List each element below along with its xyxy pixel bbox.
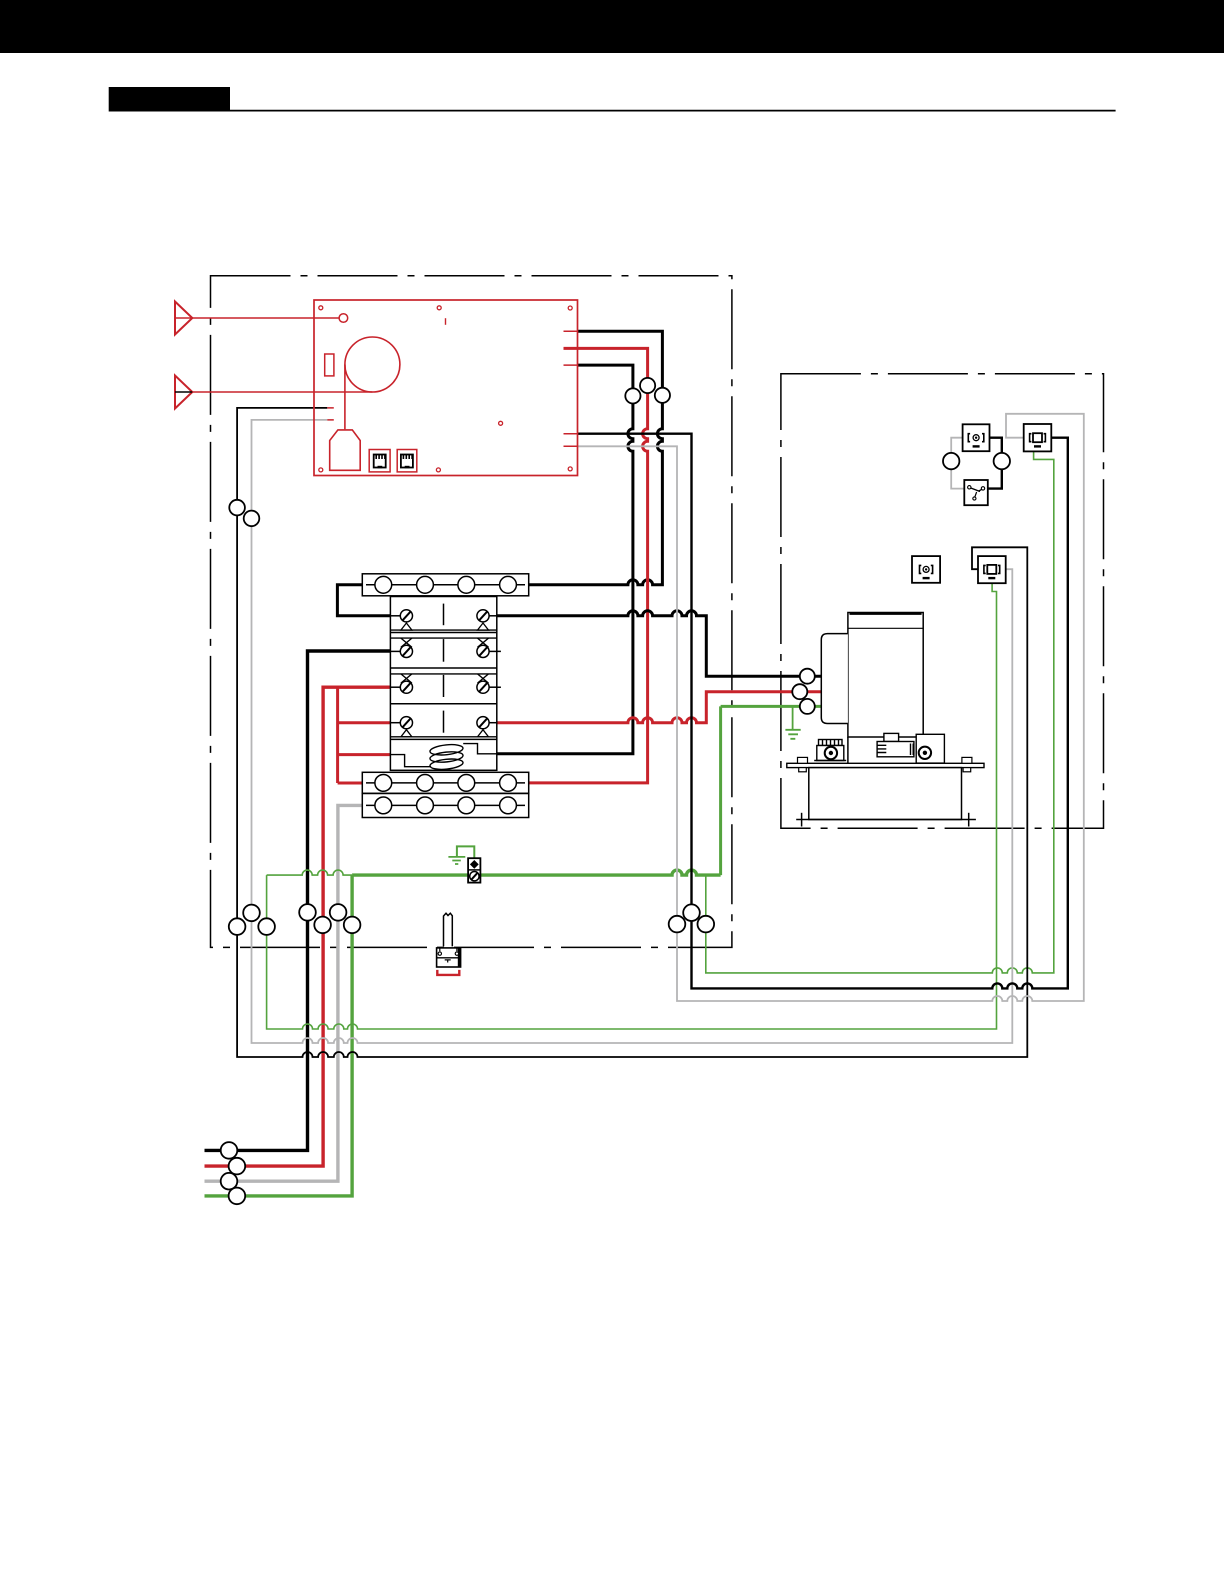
interlock switch box	[964, 480, 988, 505]
wire: green ground bus thin left tail	[267, 870, 353, 875]
wire: device A right black to interlock switch	[988, 438, 1002, 489]
wire: contactor row2 left to bottom-left cable black	[205, 651, 391, 1150]
wire: green ground main - motor terminal 3 stub	[721, 705, 822, 708]
junction circles near control board right	[625, 378, 670, 404]
wire: board pin4 black to device B right	[578, 434, 1068, 989]
wire: contactor row1 right black to motor terminal 1	[497, 611, 822, 676]
contactor K1 row3 contacts	[390, 674, 496, 697]
contactor K1 body	[390, 597, 496, 771]
control board antenna terminal circle	[339, 314, 348, 323]
contactor K1 row4 contacts	[390, 711, 496, 737]
wire: board left gray to solenoid valve D right	[252, 420, 1013, 1043]
junction circles near control board left	[229, 500, 259, 526]
hydraulic power unit: reservoir tank	[809, 768, 962, 820]
input arrow 1	[175, 302, 339, 335]
top terminal strip TB1	[362, 574, 528, 596]
wire: board pin3 black to contactor coil right	[497, 365, 633, 754]
wire: contactor right edge stubs rows 2-3	[497, 651, 501, 687]
wire: red branch vertical to row4 / coil / strip A left	[338, 687, 391, 783]
wire: board pin5 gray to device B left	[578, 414, 1084, 1001]
wire: red pin stubs on board right pins	[564, 331, 578, 446]
hydraulic power unit: valve block	[916, 734, 944, 763]
hydraulic power unit: motor body	[821, 613, 923, 764]
header rule line	[229, 110, 1116, 112]
hydraulic power unit: pump motor	[814, 740, 846, 761]
wire: green ground bus horizontal thick	[352, 870, 720, 875]
wire: strip B left gray to bottom-left cable gray	[205, 805, 363, 1181]
wire: board left black to solenoid valve D left	[237, 408, 1027, 1057]
control board tick mark	[445, 318, 447, 325]
wire: top strip left to contactor row1 left	[337, 585, 390, 616]
wire: device A left gray to interlock switch	[951, 438, 964, 489]
ground lug terminal	[448, 846, 480, 882]
lower terminal strip TB3	[362, 793, 528, 817]
junction circles bottom-middle thick group	[299, 904, 360, 933]
contactor K1 coil	[390, 743, 496, 771]
control board component rectangle	[325, 354, 334, 376]
control board antenna holder tag	[330, 430, 361, 470]
motor ground symbol	[785, 706, 800, 738]
header black banner	[0, 0, 1224, 53]
wire: board pin1 black to top terminal strip	[529, 331, 663, 585]
solenoid valve device D	[978, 556, 1006, 583]
junction circles bottom-left cable ends	[221, 1142, 246, 1204]
contactor K1 row1 contacts	[390, 604, 496, 631]
wire: green bus to bottom-left cable green	[205, 875, 353, 1196]
junction circles bottom-right group	[669, 904, 714, 932]
wire: contactor row4 right red to motor terminal 2	[497, 692, 822, 723]
section label block	[109, 87, 230, 112]
wire: green from device B to ground bus junction	[706, 451, 1054, 973]
control board U1 outline	[314, 300, 578, 476]
interlock connector circles	[943, 453, 1010, 469]
wire: red pin stubs on board left pins	[327, 408, 334, 420]
RJ jack J2	[397, 450, 417, 472]
RJ jack J1	[369, 450, 390, 472]
lower terminal strip TB2	[362, 772, 528, 793]
hydraulic power unit: base rail	[796, 813, 976, 827]
hydraulic power unit: plate bolts	[798, 757, 972, 771]
hydraulic power unit: mounting plate	[787, 763, 984, 767]
manual disconnect switch S1	[437, 913, 461, 975]
control board antenna loop	[345, 337, 400, 429]
hydraulic power unit: pump block	[877, 733, 914, 756]
input arrow 2	[175, 376, 372, 409]
motor terminal circles	[792, 669, 815, 714]
sensor device C	[912, 556, 940, 583]
wire: green vertical motor to ground bus	[719, 706, 722, 875]
junction circles bottom-left thin group	[229, 905, 275, 935]
wire: green thin loop to solenoid valve D	[267, 583, 997, 1029]
limit switch device B	[1024, 424, 1052, 451]
limit switch device A	[963, 424, 990, 451]
wire: board pin2 red to lower strip A right	[529, 348, 648, 783]
control board mounting holes	[319, 306, 572, 472]
enclosure dash-dot box (control cabinet, left)	[211, 276, 732, 948]
contactor K1 row2 contacts	[390, 638, 496, 662]
power unit dash-dot box (right)	[781, 374, 1104, 829]
wire: contactor row3 left to bottom-left cable red	[205, 687, 391, 1166]
